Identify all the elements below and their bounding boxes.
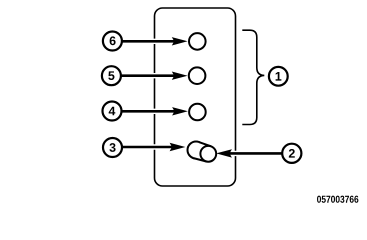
arrow callout2 (points left) xyxy=(216,149,285,157)
callout 3 xyxy=(103,138,122,157)
brace for group 1 xyxy=(242,30,264,124)
arrow callout6 xyxy=(123,37,188,45)
callout 6 xyxy=(103,32,122,51)
terminal circle row2 xyxy=(189,67,206,84)
figure number xyxy=(317,196,358,203)
terminal circle row1 xyxy=(189,33,206,50)
callout 2 xyxy=(282,144,301,163)
cylinder body xyxy=(194,142,211,162)
callout 5 xyxy=(102,66,121,85)
cylinder terminal (back circle) xyxy=(188,142,205,159)
arrow callout4 xyxy=(122,107,188,115)
terminal circle row3 xyxy=(189,104,206,121)
cylinder front circle xyxy=(200,146,216,162)
callout 1 xyxy=(269,67,288,86)
arrow callout5 xyxy=(122,72,188,80)
callout 4 xyxy=(103,102,122,121)
switch housing outline xyxy=(155,8,236,186)
arrow callout3 xyxy=(123,143,186,151)
